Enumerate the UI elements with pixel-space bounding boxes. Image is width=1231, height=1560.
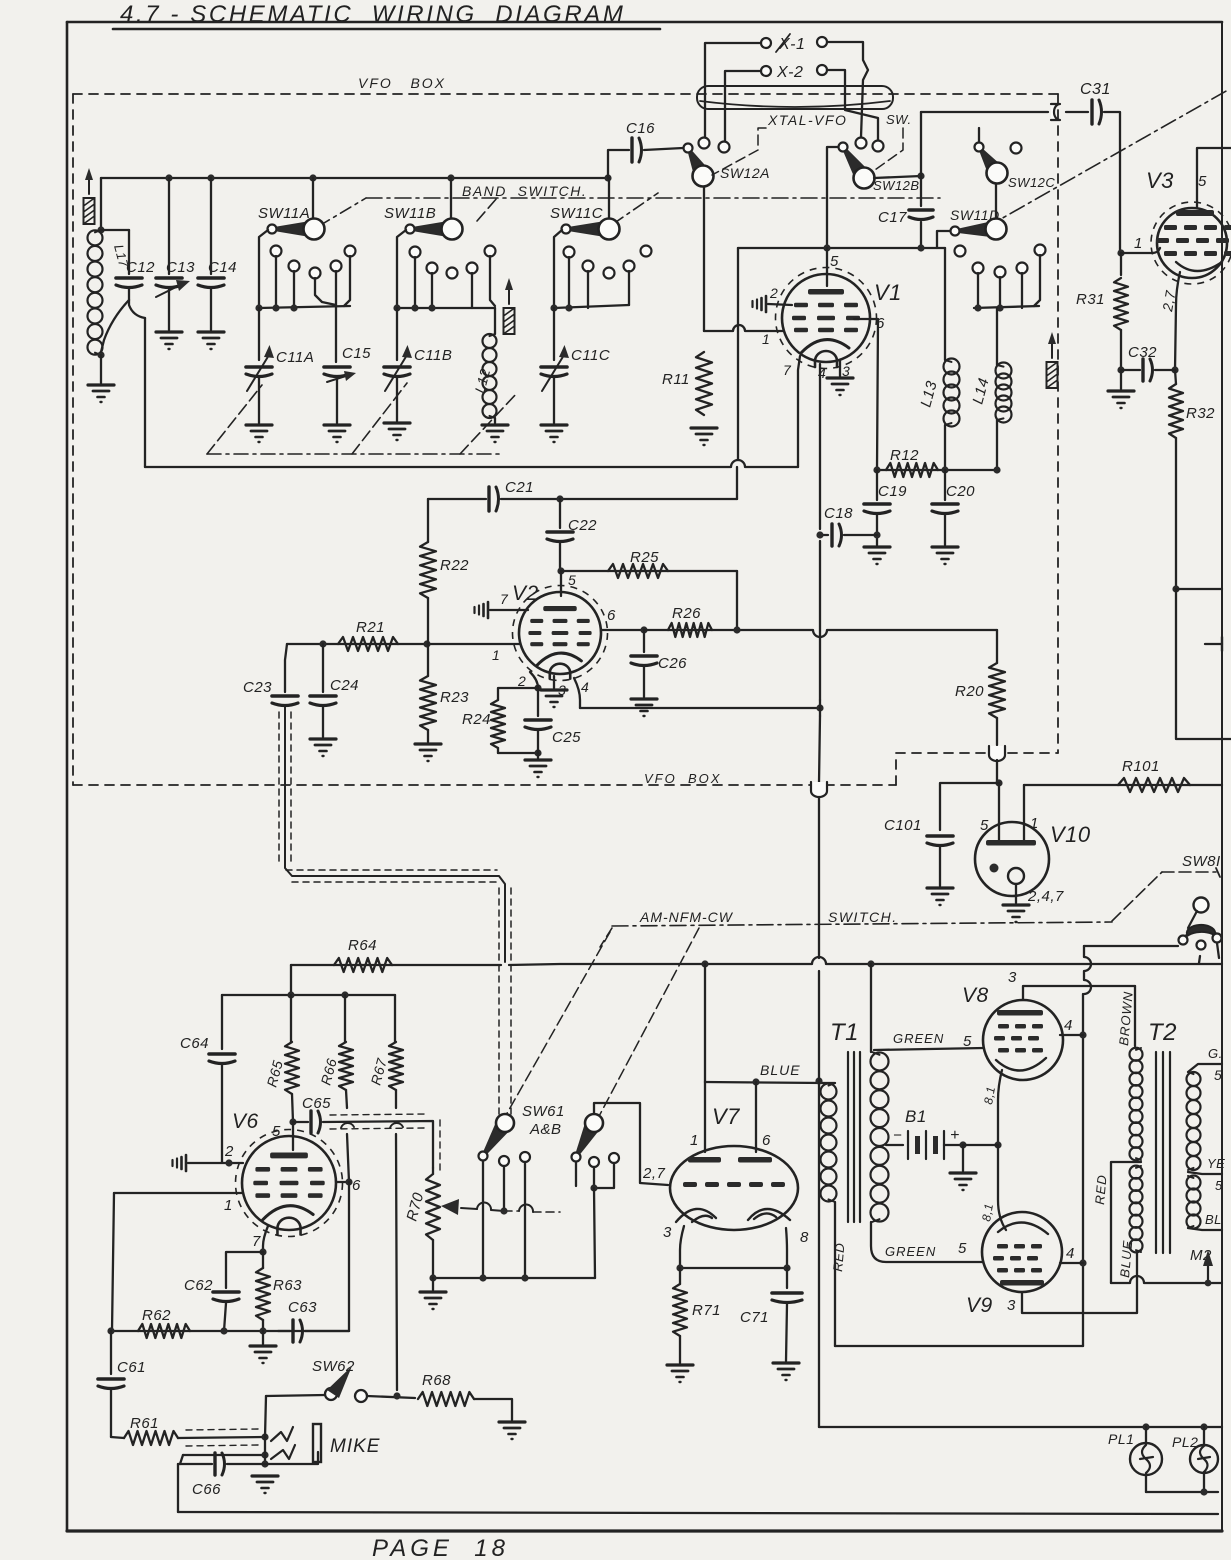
wire C17 to y248	[920, 222, 922, 248]
wire cup to C31	[1066, 111, 1088, 113]
node r25-r26	[733, 626, 740, 633]
wire V2 pin2 curve	[530, 672, 538, 688]
svg-text:R26: R26	[672, 605, 701, 622]
wire SW11D contact bus	[974, 306, 1039, 308]
ganged-switch dash-dot frame	[207, 453, 502, 455]
node c32-left	[1117, 366, 1124, 373]
svg-text:1: 1	[1134, 235, 1143, 252]
svg-text:C63: C63	[288, 1299, 317, 1316]
capacitor C25	[537, 688, 539, 716]
node bus-C13	[165, 174, 172, 181]
node row995-r65	[287, 991, 294, 998]
svg-text:4: 4	[1066, 1245, 1075, 1262]
wire R32 tap to edge	[1176, 588, 1222, 590]
wire C71 to gnd	[786, 1304, 787, 1361]
wire L14 top	[996, 308, 998, 365]
node rail-v7pin1	[701, 960, 708, 967]
wire C64 drop	[221, 995, 223, 1049]
wire V9 cathode (8,1)	[998, 1145, 1006, 1230]
svg-text:C24: C24	[330, 677, 359, 694]
wire ring shield stub	[180, 1455, 183, 1464]
transformer T2 core	[1155, 1052, 1157, 1253]
wire V2 pin4 to row	[574, 678, 580, 708]
svg-text:RED: RED	[1092, 1174, 1110, 1206]
svg-text:MIKE: MIKE	[330, 1436, 380, 1457]
wire C63 right riser	[348, 1182, 350, 1331]
svg-text:C13: C13	[166, 259, 195, 276]
wire main bus y=178	[101, 177, 608, 179]
switch SW12A	[684, 144, 693, 153]
node r12-left	[873, 466, 880, 473]
wire R20 to V10	[996, 760, 998, 783]
wire SW11A pivot to contact row	[259, 230, 268, 308]
wire R66 down with hop	[346, 1090, 349, 1182]
node c65-pin5	[289, 1118, 296, 1125]
svg-text:V6: V6	[232, 1110, 259, 1133]
node r70-wiper-line	[500, 1207, 507, 1214]
wire y248 corner to L13	[944, 248, 946, 360]
svg-text:C64: C64	[180, 1035, 209, 1052]
xtal-vfo dash-dot linkage	[712, 128, 766, 175]
svg-text:R25: R25	[630, 549, 659, 566]
resistor R31	[1120, 253, 1122, 275]
node bus-483	[479, 1274, 486, 1281]
crystal X-1	[761, 38, 771, 48]
wire C11C to ground	[553, 378, 555, 423]
contact SW11B-1	[410, 247, 421, 258]
svg-text:SW12C: SW12C	[1008, 175, 1055, 190]
resistor R66	[344, 995, 346, 1042]
ground under C15	[324, 423, 350, 426]
inductor L13	[944, 359, 960, 375]
wire PL bottom row	[1146, 1491, 1218, 1493]
ground under R23	[415, 742, 441, 745]
svg-text:C101: C101	[884, 817, 922, 834]
svg-text:T2: T2	[1148, 1019, 1177, 1046]
resistor R32	[1175, 370, 1176, 384]
resistor R25	[608, 564, 668, 578]
contact SW11C-2	[583, 261, 594, 272]
wire SW12C rotor to SW11D rotor	[995, 184, 997, 219]
node sw12b-c17	[917, 172, 924, 179]
svg-text:1: 1	[762, 331, 770, 347]
wire C25 to gnd	[537, 731, 539, 753]
tube V7 grid dashes	[683, 1182, 697, 1187]
ground under V10	[1003, 903, 1029, 906]
switch SW11C	[608, 178, 610, 219]
svg-text:R63: R63	[273, 1277, 302, 1294]
tube V1 envelope	[782, 274, 870, 362]
capacitor C18	[820, 534, 828, 536]
svg-text:7: 7	[500, 591, 509, 607]
svg-text:BAND SWITCH.: BAND SWITCH.	[462, 183, 587, 199]
capacitor C17	[909, 208, 933, 212]
svg-text:R21: R21	[356, 619, 385, 636]
svg-text:C25: C25	[552, 729, 581, 746]
wire mike ring row	[183, 1454, 265, 1456]
tube V1 elements	[808, 289, 844, 295]
wire R101 row	[1024, 784, 1222, 786]
ground under L12	[482, 423, 508, 426]
node v8-pin4	[1079, 1031, 1086, 1038]
svg-text:PAGE 18: PAGE 18	[372, 1535, 509, 1560]
tube V7 envelope	[670, 1146, 798, 1230]
wires SW11B contacts down	[414, 257, 416, 308]
switch SW11A	[312, 178, 314, 219]
node blue-x819	[815, 1077, 822, 1084]
node r21-r22	[423, 640, 430, 647]
wire V1 pin4 drop	[819, 364, 821, 529]
node v2-pin2	[534, 684, 541, 691]
inductor L17	[88, 230, 103, 245]
svg-text:C31: C31	[1080, 81, 1111, 98]
tube V7 cathodes	[676, 1209, 716, 1222]
wire T1 secondary bottom to V9 pin5	[871, 1222, 983, 1262]
ground under C24	[310, 737, 336, 740]
svg-text:7: 7	[783, 362, 792, 378]
svg-text:GREEN: GREEN	[893, 1031, 944, 1046]
switch SW62	[325, 1388, 337, 1400]
wire L12 to ground	[494, 418, 496, 423]
contact SW61B-3	[609, 1153, 619, 1163]
svg-text:3: 3	[663, 1224, 672, 1241]
svg-text:C65: C65	[302, 1095, 331, 1112]
hop x820 row708	[819, 700, 821, 716]
node r26-c26	[640, 626, 647, 633]
node mike-gnd	[261, 1460, 268, 1467]
wire V3 pin5	[1197, 148, 1231, 207]
tube V8 elements	[997, 1010, 1043, 1016]
svg-text:SW.: SW.	[886, 112, 912, 127]
capacitor C61	[110, 1331, 112, 1374]
shield pass-through R20	[989, 746, 1005, 761]
node b1-cathodes	[994, 1141, 1001, 1148]
switch SW61A	[479, 1152, 488, 1161]
jack tip contact	[271, 1427, 293, 1441]
node bus-SW11A	[309, 174, 316, 181]
tube V3 elements	[1176, 210, 1214, 216]
wire T2 sec top stub	[1188, 1064, 1222, 1072]
contact SW11C-1	[564, 247, 575, 258]
node row995-r66	[341, 991, 348, 998]
wire R62 row	[111, 1330, 349, 1332]
wire T2 sec mid stub	[1188, 1172, 1222, 1174]
node blue-pin6	[752, 1078, 759, 1085]
jack ring contact	[271, 1445, 295, 1459]
node mike-ring	[261, 1451, 268, 1458]
svg-text:5: 5	[1198, 173, 1207, 190]
wire C66 left drop	[177, 1464, 179, 1512]
svg-text:V8: V8	[962, 984, 989, 1007]
ground under C71	[773, 1361, 799, 1364]
crystal X-2	[761, 66, 771, 76]
slug/arrow for L17	[84, 198, 95, 224]
switch SW81	[1194, 898, 1209, 913]
svg-text:5: 5	[958, 1240, 967, 1257]
wire R64 row / B+ rail	[291, 964, 501, 966]
resistor R67	[394, 995, 396, 1042]
wire R25 row	[561, 570, 737, 572]
band switch dash-dot linkage	[366, 197, 940, 199]
ground under L17	[88, 383, 114, 386]
potentiometer R70	[432, 1168, 434, 1174]
transformer T1 secondary	[871, 1052, 889, 1070]
transformer T2 primary upper	[1130, 1048, 1143, 1061]
wire SW12A rotor down to V1 grid	[703, 187, 705, 331]
wire bus gnd stub	[432, 1278, 434, 1290]
svg-text:5: 5	[1215, 1178, 1223, 1193]
svg-text:R71: R71	[692, 1302, 721, 1319]
ground under C14	[198, 330, 224, 333]
node c32-right	[1171, 366, 1178, 373]
node c11a-bus3	[290, 304, 297, 311]
contact SW12B-b	[873, 141, 884, 152]
resistor R22	[427, 499, 429, 542]
wire SW61B contact stems	[575, 1162, 577, 1186]
contact SW11B-3	[447, 268, 458, 279]
svg-text:BLUE: BLUE	[760, 1062, 801, 1078]
svg-text:R31: R31	[1076, 291, 1105, 308]
ground under C11A	[246, 423, 272, 426]
contact SW61A-2	[499, 1156, 509, 1166]
wire x=265 down	[264, 1437, 266, 1464]
wire GREEN to V8 pin5	[874, 1048, 984, 1050]
svg-text:2,4,7: 2,4,7	[1027, 888, 1064, 905]
svg-text:R64: R64	[348, 937, 377, 954]
resistor R64	[334, 958, 392, 972]
slug/arrow for L12	[504, 308, 515, 334]
node pl1-top	[1142, 1423, 1149, 1430]
ground under C20	[932, 545, 958, 548]
node c11b-bus1	[393, 304, 400, 311]
capacitor C11C (variable)	[541, 365, 567, 369]
wire C62 to row	[224, 1303, 226, 1331]
contact SW11A-3	[310, 268, 321, 279]
capacitor C22	[559, 499, 561, 528]
node c18-left	[816, 531, 823, 538]
switch SW12B	[839, 143, 848, 152]
linkage to SW61B	[597, 928, 699, 1120]
transformer T2 primary lower	[1130, 1166, 1143, 1179]
ground under C101	[927, 886, 953, 889]
wire long y=467	[145, 460, 798, 467]
capacitor C12	[116, 276, 142, 280]
wire C61 to R61	[110, 1390, 112, 1437]
wire L14 to node	[996, 420, 998, 470]
node pin7-node	[259, 1248, 266, 1255]
wire SW61A contact stems	[482, 1161, 484, 1278]
node bus-525	[521, 1274, 528, 1281]
ground under R11	[691, 426, 717, 429]
svg-text:R22: R22	[440, 557, 469, 574]
svg-text:X-2: X-2	[776, 64, 803, 81]
resistor R71	[673, 1284, 687, 1336]
wire sw61b stem down	[594, 1188, 595, 1278]
svg-text:V2: V2	[512, 582, 539, 605]
contact SW11D-1	[955, 246, 966, 257]
node r12-right	[941, 466, 948, 473]
contact SW11A-1	[271, 246, 282, 257]
svg-text:8: 8	[800, 1229, 809, 1246]
wire V8 pin4	[1060, 1034, 1083, 1036]
node sw61b-stem	[590, 1184, 597, 1191]
wire R64 corner down	[290, 965, 292, 995]
wire x=921 down	[920, 112, 922, 206]
wire R25 corner down	[736, 571, 738, 630]
capacitor C20	[944, 470, 946, 500]
svg-text:C14: C14	[208, 259, 237, 276]
node r62-r63	[259, 1327, 266, 1334]
ground under V2 pin3	[541, 688, 567, 691]
switch SW11B	[450, 178, 452, 219]
wire R67 down with hop	[396, 1090, 397, 1390]
svg-text:R23: R23	[440, 689, 469, 706]
svg-text:BL: BL	[1205, 1212, 1222, 1227]
svg-text:C12: C12	[126, 259, 155, 276]
ground under C13	[156, 330, 182, 333]
capacitor C31	[1090, 100, 1093, 124]
tube V6 envelope	[242, 1136, 336, 1230]
resistor R61	[111, 1437, 124, 1438]
capacitor C24	[322, 644, 324, 692]
ground under C32	[1108, 389, 1134, 392]
contact SW11A-4	[331, 261, 342, 272]
wire filament loop bottom	[835, 1345, 1083, 1347]
svg-text:SW11D: SW11D	[950, 207, 1000, 223]
wire C26 to gnd	[643, 667, 645, 697]
wire cathode row y708	[580, 707, 820, 709]
node c11b-bus3	[428, 304, 435, 311]
node c11b-bus2	[411, 304, 418, 311]
wire V6 pin6	[336, 1181, 349, 1183]
svg-text:4.7 - SCHEMATIC WIRING DIAGR: 4.7 - SCHEMATIC WIRING DIAGRAM	[120, 1, 625, 28]
wire L17 bottom to ground	[100, 355, 102, 383]
wire V2 pin6 row	[601, 629, 644, 631]
contact SW11B-4	[467, 263, 478, 274]
node v1-pin5	[823, 244, 830, 251]
wire X-1 left leg	[705, 43, 761, 137]
wire V8 pin3	[1023, 986, 1135, 1000]
capacitor C16 feed	[608, 150, 629, 178]
node c11c-bus2	[565, 304, 572, 311]
wire C65 to R70 (shielded)	[323, 1121, 433, 1168]
pilot lamp PL1	[1145, 1427, 1147, 1444]
capacitor C101	[927, 834, 953, 838]
ground under C25	[525, 758, 551, 761]
resistor R101	[1118, 778, 1190, 792]
wire bottom rail right	[819, 1426, 1222, 1428]
svg-text:V7: V7	[712, 1104, 740, 1129]
node sw11d-bus2	[996, 304, 1003, 311]
wire BROWN down to T2	[1134, 986, 1136, 1046]
resistor R68	[418, 1392, 474, 1406]
ground under C11C	[541, 423, 567, 426]
inductor L12	[483, 334, 497, 348]
resistor R12	[886, 463, 938, 477]
wire V7 pin6 drop	[755, 1082, 757, 1152]
svg-text:C18: C18	[824, 505, 853, 522]
wire x=145 down to y=467	[144, 318, 146, 467]
contact SW12A-a	[699, 138, 710, 149]
wire R26 row	[644, 629, 737, 631]
svg-text:1: 1	[690, 1132, 699, 1149]
node r20-v10	[995, 779, 1002, 786]
wire SW62 to R68	[367, 1396, 415, 1398]
wires SW11A contacts down	[275, 256, 277, 308]
svg-text:R20: R20	[955, 683, 984, 700]
tube V6 elements	[270, 1153, 308, 1159]
shielded cable from C23	[285, 707, 505, 962]
contact SW61B-2	[589, 1157, 599, 1167]
contact SW11B-5	[485, 246, 496, 257]
node c11c-bus1	[550, 304, 557, 311]
wire V6 pin1 row	[114, 1192, 243, 1194]
wire C13 to ground	[168, 289, 170, 330]
wire V10 pin5	[998, 783, 1000, 842]
svg-text:VFO BOX: VFO BOX	[358, 75, 446, 91]
node row708-x820	[816, 704, 823, 711]
svg-text:C15: C15	[342, 345, 371, 362]
wire C20 to gnd	[944, 515, 946, 545]
resistor R63	[262, 1252, 264, 1268]
node c18-c19	[873, 531, 880, 538]
node r21-c24	[319, 640, 326, 647]
svg-text:PL1: PL1	[1108, 1431, 1134, 1447]
svg-text:R101: R101	[1122, 758, 1160, 775]
wire L13 to R12 node	[944, 425, 946, 470]
capacitor C65	[293, 1121, 308, 1123]
contact SW11D-5	[1035, 245, 1046, 256]
node c11a-bus2	[272, 304, 279, 311]
wire bottom rail	[178, 1512, 1218, 1514]
wire C31 to V3 grid	[1104, 112, 1120, 253]
ground under R68	[499, 1420, 525, 1423]
rf ground at V6 pin2	[185, 1155, 188, 1171]
wire R63 gnd stub	[262, 1331, 264, 1344]
node c17-y248	[917, 244, 924, 251]
wire to C11C	[553, 308, 555, 360]
svg-text:YE: YE	[1207, 1156, 1225, 1171]
node c11a-bus1	[255, 304, 262, 311]
tube V10 plate bar	[986, 840, 1036, 846]
contact SW11C-4	[624, 261, 635, 272]
wire pin3-pin8 row	[680, 1267, 787, 1269]
svg-text:AM-NFM-CW: AM-NFM-CW	[639, 909, 734, 925]
svg-text:B1: B1	[905, 1107, 927, 1126]
resistor R20	[996, 630, 998, 663]
node c71-top	[783, 1264, 790, 1271]
svg-text:3: 3	[1008, 969, 1017, 986]
node L14-R20	[993, 466, 1000, 473]
node pl2-bottom	[1200, 1488, 1207, 1495]
wire x=114 down to R62	[112, 1193, 114, 1331]
capacitor C11B (variable)	[384, 365, 410, 369]
svg-text:V3: V3	[1146, 168, 1174, 193]
contact SW11C-3	[604, 268, 615, 279]
svg-text:R61: R61	[130, 1415, 159, 1432]
ground under C26	[631, 697, 657, 700]
wire R32 down to off-page	[1176, 589, 1231, 739]
svg-text:C32: C32	[1128, 344, 1157, 361]
wire C14 to ground	[210, 289, 212, 330]
svg-text:PL2: PL2	[1172, 1434, 1198, 1450]
resistor R11	[696, 352, 712, 415]
ground under SW61 bus	[420, 1290, 446, 1293]
pilot lamp PL2	[1203, 1427, 1205, 1445]
svg-text:SW12B: SW12B	[873, 178, 920, 193]
capacitor C13 (trimmer)	[156, 276, 182, 280]
svg-text:C22: C22	[568, 517, 597, 534]
